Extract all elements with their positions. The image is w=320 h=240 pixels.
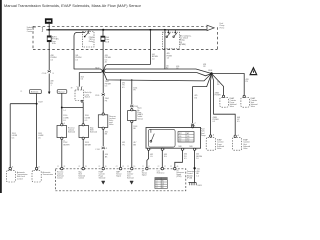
svg-text:C1: C1 [20, 91, 22, 93]
PCM pin text 2 [78, 171, 85, 179]
connector pin evap lower left [209, 135, 211, 137]
junction dot fuse1 tap [48, 29, 50, 31]
svg-text:Control: Control [78, 176, 84, 179]
solenoid box 3 [98, 113, 108, 129]
svg-text:Solenoid: Solenoid [90, 132, 97, 134]
svg-text:C 100: C 100 [42, 73, 47, 75]
svg-text:1.0: 1.0 [152, 58, 155, 60]
svg-text:C2: C2 [98, 166, 100, 168]
svg-text:425: 425 [187, 141, 190, 143]
lower left wire label [213, 117, 220, 123]
internal rounded sub box [148, 129, 175, 147]
inline connector C105 right [130, 105, 138, 108]
svg-text:B: B [12, 166, 13, 168]
svg-text:BK/WH: BK/WH [85, 144, 92, 146]
PCM connector legend table [155, 178, 167, 190]
wire box1 to module [61, 139, 63, 167]
svg-text:C2: C2 [78, 166, 80, 168]
mid rail corner down [131, 80, 133, 105]
svg-text:B: B [53, 73, 54, 75]
svg-text:GY: GY [162, 185, 164, 187]
PCM pin circle 4 [116, 166, 124, 170]
box4 feed label [133, 87, 137, 91]
svg-text:(PCM): (PCM) [187, 178, 193, 180]
fuse F2 label [105, 37, 109, 43]
svg-text:1.0: 1.0 [196, 175, 199, 177]
page background [0, 0, 262, 193]
solenoid box 4 [128, 109, 136, 123]
manual split label 2 [85, 115, 91, 122]
wire S108 diag purge left [212, 74, 224, 96]
maf wire label lower [122, 142, 125, 146]
fuse F1 label [52, 36, 60, 45]
manual split horizontal [62, 107, 83, 109]
wire B label [167, 53, 173, 59]
svg-text:8: 8 [149, 166, 150, 168]
wire S108 to evap lower left [210, 74, 213, 135]
option split arrow end [48, 85, 52, 94]
splice S108 [210, 72, 213, 75]
svg-text:C2: C2 [57, 166, 59, 168]
evap solenoid dashed box left top [220, 97, 228, 107]
wire pin3 to module [175, 150, 183, 167]
splice S107 [102, 70, 105, 73]
fuse block label with bracket [27, 27, 44, 33]
relay K1 output label [75, 55, 82, 62]
PCM pin circle 8 [170, 166, 178, 170]
PCM pin circle 6 [142, 166, 150, 170]
svg-text:BU: BU [162, 181, 164, 183]
switch pin marks [71, 86, 83, 90]
automatic wire label [38, 133, 44, 139]
PCM pin circle 5 [127, 166, 135, 170]
junction dot left branch [36, 103, 38, 105]
svg-text:BK: BK [162, 187, 164, 189]
mid rail tap dot 1 [120, 79, 121, 80]
svg-text:B: B [196, 149, 197, 151]
wire S108 to vent right [212, 74, 245, 96]
junction dot wire A tap [149, 29, 151, 31]
svg-text:49: 49 [177, 166, 179, 168]
relay K1 switch symbol [84, 30, 89, 38]
relay K2 label [180, 34, 192, 46]
svg-text:41: 41 [106, 148, 108, 150]
svg-text:Solenoid: Solenoid [68, 132, 75, 134]
PCM dashed box [55, 169, 185, 191]
PCM pin text 8 [176, 170, 184, 178]
fuse block dashed top edge [33, 25, 207, 27]
wire box2 to module [82, 139, 84, 167]
wire lower rail to switch [78, 73, 80, 87]
wire pin1 to module [147, 150, 149, 167]
wire pin2 to module [161, 150, 163, 167]
switch wire label [81, 77, 84, 81]
internal switch symbol [150, 129, 154, 142]
junction dot manual split [61, 107, 63, 109]
inline connector C101 [95, 147, 107, 151]
relay K1 dashed box [83, 32, 95, 48]
ground wire label [196, 171, 199, 177]
wire box3 to module [102, 150, 104, 167]
wire A label [152, 54, 159, 60]
wire S108 to evap lower right [212, 74, 236, 136]
ground junction dot [193, 167, 200, 170]
pin3 wire label [184, 154, 187, 160]
relay K1 output curve [74, 32, 85, 69]
left black border bar [0, 0, 2, 193]
relay K2 dashed box [162, 32, 179, 49]
svg-text:0.5: 0.5 [237, 121, 240, 123]
wire B lower label [166, 65, 169, 69]
wire S108 to big box [193, 74, 212, 124]
svg-text:Switch: Switch [85, 95, 90, 98]
svg-text:439: 439 [187, 136, 190, 138]
svg-text:C2: C2 [170, 166, 172, 168]
lower right wire label [237, 117, 240, 123]
svg-text:C2: C2 [142, 166, 144, 168]
battery positive junction box B+ [45, 18, 53, 30]
svg-text:0.5: 0.5 [75, 59, 78, 61]
pin letters box1 [64, 122, 65, 142]
PCM module name [187, 170, 196, 180]
svg-text:C2: C2 [158, 166, 160, 168]
svg-text:0.5: 0.5 [105, 59, 108, 61]
maf feed wire down [120, 80, 122, 168]
wire box3 down [102, 129, 104, 146]
PCM pin circle 7 [158, 166, 166, 170]
svg-text:Control: Control [57, 176, 63, 179]
svg-text:C2: C2 [156, 183, 158, 185]
svg-text:Relay: Relay [89, 41, 94, 43]
left wire label [12, 133, 18, 139]
wire bus to fuse2 [102, 30, 104, 36]
evap left top label [230, 97, 237, 108]
svg-text:C2: C2 [116, 166, 118, 168]
svg-text:Pump: Pump [201, 135, 206, 137]
connector pin vent right [243, 95, 245, 97]
evap dashed box lower right [232, 138, 241, 151]
mid rail big V [103, 71, 211, 81]
wire connector to big box [192, 126, 194, 127]
svg-text:Reference: Reference [157, 172, 165, 175]
box1 wire label [63, 142, 70, 146]
svg-text:BK/WH: BK/WH [63, 144, 70, 146]
box4 label [137, 108, 143, 121]
box4 wire label2 [133, 142, 136, 146]
box3 wire upper label [105, 81, 112, 88]
pin2 wire label [164, 154, 167, 158]
big box feed label [194, 95, 197, 99]
svg-text:Manual: Manual [59, 92, 65, 94]
backup switch label [85, 92, 92, 98]
wire branch to far left [10, 103, 36, 105]
big box label [201, 129, 206, 137]
svg-text:Valve: Valve [217, 148, 221, 150]
backup switch bottom pin [81, 100, 83, 102]
fuse1 wire label [51, 55, 58, 62]
junction dot wire B tap [164, 29, 166, 31]
fuse F2 ENG [101, 36, 105, 41]
PCM pin circle 1 [57, 166, 65, 170]
svg-text:C2: C2 [127, 166, 129, 168]
box3 lower label [105, 131, 108, 135]
svg-text:(PCM): (PCM) [176, 176, 181, 178]
bus bar hot feed wire [46, 29, 206, 31]
relay output wire B [164, 30, 166, 69]
svg-text:Valve: Valve [251, 106, 255, 108]
svg-text:M30: M30 [179, 146, 182, 148]
big box bottom pins [148, 125, 198, 151]
evap right top label [251, 97, 258, 108]
upper rail S107 to S108 [74, 69, 212, 74]
option label box Manual [57, 90, 67, 94]
svg-text:0.5: 0.5 [85, 120, 88, 122]
box3 label [109, 116, 116, 126]
junction dot fuse2 tap [102, 29, 104, 31]
svg-text:S108: S108 [208, 70, 212, 72]
wire switch to box2 [82, 102, 84, 125]
lower rail S107 to S108 [79, 71, 211, 76]
pin into big box [192, 126, 194, 128]
PCM pin circle 3 [98, 166, 106, 170]
relay K2 contact 2 [173, 30, 177, 38]
box2 wire label [85, 142, 92, 146]
PCM pin text 7 [157, 171, 165, 175]
PCM pin text 6 [142, 170, 148, 177]
svg-text:C105: C105 [95, 95, 99, 97]
fuse2 wire label [105, 55, 112, 62]
continuation destination label [220, 23, 225, 29]
box3 module wire label [105, 154, 108, 158]
svg-text:0.5: 0.5 [105, 86, 108, 88]
relay K1 label [89, 37, 94, 43]
pin4 wire label [196, 154, 203, 161]
skip shift label [90, 127, 97, 133]
solenoid box skip shift [79, 124, 89, 140]
svg-text:Automatic: Automatic [31, 91, 39, 94]
svg-text:1.0: 1.0 [167, 58, 170, 60]
PCM pin text 1 [57, 170, 64, 179]
upper rail label [176, 66, 179, 70]
wire fuse1 down [48, 42, 50, 70]
svg-text:120: 120 [166, 65, 169, 67]
wire bus to fuse1 [48, 30, 50, 36]
svg-text:C1: C1 [156, 181, 158, 183]
relay K2 contact 1 [166, 30, 170, 38]
PCM pin text 5 [127, 170, 134, 179]
wire automatic option down [36, 94, 38, 168]
fuse block dashed bottom edge [33, 49, 218, 51]
evap solenoid dashed box right top [241, 97, 249, 107]
connector pin evap lower right [234, 135, 236, 137]
svg-text:Manual Transmission Solenoids,: Manual Transmission Solenoids, EVAP Sole… [4, 3, 142, 8]
shift lock label [17, 171, 28, 180]
lower right wire upper label [215, 93, 222, 97]
svg-text:Valve: Valve [109, 124, 113, 126]
svg-text:Sensor: Sensor [137, 118, 143, 120]
fuel pump module box [146, 128, 201, 149]
caution triangle [249, 66, 257, 75]
svg-text:45: 45 [105, 166, 107, 168]
svg-text:PK/WH: PK/WH [215, 95, 222, 97]
svg-text:S111: S111 [197, 168, 201, 170]
trans control label [43, 171, 54, 176]
svg-text:Signal: Signal [116, 175, 121, 177]
PCM pin circle 2 [78, 166, 86, 170]
fuse F1 AUTO HTR A/C [47, 36, 51, 42]
wire fuse2 down to splice [102, 41, 104, 70]
connector pin automatic [35, 167, 38, 170]
svg-text:C3: C3 [156, 185, 158, 187]
svg-text:+: + [76, 86, 77, 88]
internal table box [178, 132, 194, 143]
svg-text:39: 39 [71, 87, 73, 89]
svg-text:450: 450 [187, 139, 190, 141]
component box trans control dashed [32, 171, 41, 182]
fuse block dashed left edge [32, 26, 34, 49]
wire pin4 to ground [194, 150, 196, 182]
wire connector to box4 [131, 108, 133, 109]
svg-text:0.5: 0.5 [213, 121, 216, 123]
svg-text:4: 4 [195, 122, 196, 124]
wire manual option down [61, 93, 63, 125]
svg-text:Transmission: Transmission [43, 174, 54, 176]
branch label [38, 102, 42, 104]
svg-text:(PWM): (PWM) [180, 44, 186, 46]
pin1 wire label [150, 154, 153, 158]
svg-text:0.5: 0.5 [12, 137, 15, 139]
evap lower left label [217, 139, 224, 150]
svg-text:19: 19 [134, 166, 136, 168]
fuse1 wire label lower [50, 81, 53, 85]
vent right label [246, 79, 249, 83]
svg-text:Valve: Valve [230, 106, 234, 108]
svg-text:Valve: Valve [243, 148, 247, 150]
backup switch dashed box [75, 90, 84, 101]
svg-text:Prime: Prime [220, 27, 225, 29]
option label box Automatic [29, 90, 41, 94]
svg-text:0.5: 0.5 [122, 87, 125, 89]
box4 wire label [133, 126, 137, 130]
inline connector on big box feed [191, 122, 196, 126]
evap dashed box lower left [206, 138, 215, 151]
purge left wire label [217, 82, 220, 86]
mid rail tap dot 2 [131, 79, 132, 80]
svg-text:+: + [82, 86, 83, 88]
svg-text:32: 32 [64, 166, 66, 168]
svg-text:C 101: C 101 [95, 149, 100, 151]
ground G103 [189, 183, 202, 187]
wire S107 down [102, 71, 104, 93]
internal pin texts [179, 146, 193, 148]
svg-text:425: 425 [179, 141, 182, 143]
wire box4 to module [131, 123, 133, 168]
svg-text:1-4: 1-4 [63, 110, 65, 112]
reverse lockout label [68, 127, 75, 133]
svg-text:439: 439 [179, 136, 182, 138]
svg-text:E: E [150, 149, 151, 151]
svg-text:Signal: Signal [142, 175, 147, 177]
svg-text:0.5: 0.5 [51, 59, 54, 61]
component box shift lock dashed [6, 171, 15, 182]
evap lower right label [243, 139, 250, 150]
svg-text:0.5: 0.5 [184, 158, 187, 160]
wire connector to option split [48, 74, 50, 92]
connector pin far left [9, 167, 12, 170]
manual split label [63, 115, 69, 122]
svg-text:2: 2 [51, 85, 52, 87]
relay output wire A [104, 30, 151, 70]
svg-text:450: 450 [179, 139, 182, 141]
far left wire down [9, 104, 11, 168]
solenoid box reverse lockout [57, 124, 67, 140]
svg-text:0.5: 0.5 [63, 120, 66, 122]
PCM pin text 4 [116, 170, 122, 177]
inline connector C105 left [95, 93, 105, 97]
svg-text:M/T: M/T [179, 133, 182, 135]
PCM ground ref triangle 1 [102, 181, 105, 184]
svg-text:S147: S147 [38, 102, 42, 104]
bus bar end arrow [207, 25, 214, 30]
maf wire label upper [122, 82, 125, 89]
inline connector C100 on fuse1 wire [42, 70, 54, 75]
svg-text:M30: M30 [190, 146, 193, 148]
svg-text:G103: G103 [197, 185, 201, 187]
PCM ground ref triangle 2 [130, 181, 133, 184]
rail label near S108 [203, 64, 206, 68]
svg-text:Solenoid: Solenoid [127, 177, 134, 179]
box3 wire label [105, 98, 109, 102]
svg-text:Solenoid: Solenoid [99, 177, 106, 179]
connector pin purge left [222, 95, 224, 97]
svg-text:33: 33 [85, 166, 87, 168]
svg-text:Control: Control [17, 177, 23, 180]
svg-text:17: 17 [164, 166, 166, 168]
wire to box3 [102, 96, 104, 114]
svg-text:C4: C4 [156, 187, 158, 189]
PCM pin text 3 [99, 170, 106, 179]
svg-text:1.0: 1.0 [196, 158, 199, 160]
svg-text:Center: Center [27, 30, 33, 33]
fuse block dashed right edge [217, 27, 219, 49]
svg-text:0.5: 0.5 [38, 137, 41, 139]
svg-text:12: 12 [122, 166, 124, 168]
